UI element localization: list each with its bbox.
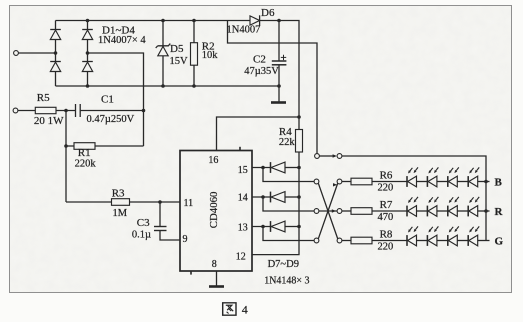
node: pin wire junction row 3 (261, 225, 265, 229)
wire (478, 210, 490, 212)
svg-text:C1: C1 (101, 94, 114, 106)
LED string G diode 4 (467, 235, 469, 246)
diode D4 (bridge bottom-right) (87, 40, 89, 62)
node: reset-net junction dots (297, 166, 301, 170)
wire (457, 210, 468, 212)
diode D9 (252, 226, 271, 228)
wire (437, 181, 448, 183)
wire: connector to R8 (342, 240, 351, 242)
node: AC input node right bridge midpoint (86, 51, 90, 55)
wire (457, 181, 468, 183)
capacitor C3 (159, 202, 161, 227)
svg-text:220: 220 (378, 182, 394, 193)
svg-text:13: 13 (238, 223, 248, 234)
capacitor C2 electrolytic (278, 21, 280, 62)
wire (478, 181, 490, 183)
LED string R diode 4 (467, 206, 469, 217)
svg-text:R5: R5 (37, 92, 50, 104)
svg-text:16: 16 (208, 155, 218, 166)
svg-text:20 1W: 20 1W (34, 115, 64, 127)
wire: pre-rectifier branch from top rail down to switch (228, 21, 318, 154)
zener diode D5 (162, 21, 164, 46)
node: pin wire junction row 1 (261, 166, 265, 170)
node: input terminal 1 (14, 51, 19, 56)
wire: top +rail from bridge to D6 anode (56, 20, 251, 22)
svg-text:D7~D9: D7~D9 (268, 259, 299, 270)
wire: bottom 0V rail (56, 85, 280, 87)
svg-text:14: 14 (238, 193, 248, 204)
svg-text:22k: 22k (279, 137, 296, 148)
wire: C1 right to bridge midpoint (vertical riser) (80, 110, 143, 112)
wire: connector to R6 (342, 181, 351, 183)
svg-text:G: G (495, 236, 504, 248)
svg-text:0.47µ250V: 0.47µ250V (87, 114, 135, 125)
svg-text:11: 11 (184, 198, 194, 209)
resistor R7 (351, 208, 372, 215)
wire: pin16 supply wire (217, 117, 300, 151)
wire: terminal2 to R5 (18, 110, 35, 112)
svg-text:B: B (495, 177, 503, 189)
switch S1 (315, 154, 320, 159)
diode D8 (252, 196, 271, 198)
wire: terminal1 to bridge (18, 52, 55, 54)
svg-text:D6: D6 (261, 7, 275, 19)
svg-text:9: 9 (183, 234, 188, 245)
diode D6 (250, 16, 260, 25)
resistor R5 (35, 107, 56, 113)
wire: crossover middle (319, 210, 337, 212)
node: AC input node left bridge midpoint (54, 51, 58, 55)
pin stub top edge (239, 147, 241, 151)
svg-text:R3: R3 (112, 187, 125, 199)
wire (478, 240, 490, 242)
LED string B diode 1 (406, 176, 408, 187)
wire: jog from pin row 2 to connector row (263, 197, 314, 211)
wire (437, 210, 448, 212)
svg-text:C2: C2 (253, 54, 266, 66)
wire: R8 to LED string (372, 240, 407, 242)
svg-text:R8: R8 (380, 229, 393, 241)
svg-text:10k: 10k (202, 50, 219, 61)
node: junction dots on top rail (86, 19, 90, 23)
node: R3/C3 junction (158, 200, 162, 204)
label + polarity of C2 (281, 56, 286, 58)
svg-text:0.1µ: 0.1µ (132, 229, 151, 240)
svg-text:15: 15 (238, 165, 248, 176)
LED string G diode 3 (447, 235, 449, 246)
svg-text:1N4007: 1N4007 (227, 25, 261, 36)
node: +V junction to pin16 (297, 115, 301, 119)
node: input terminal 2 (13, 108, 18, 113)
wire: top rail from D6 cathode to right corner (260, 21, 299, 118)
diode D3 (bridge top-right) (87, 21, 89, 30)
LED string G diode 2 (426, 235, 428, 246)
wire (417, 240, 428, 242)
LED string G diode 1 (406, 235, 408, 246)
svg-text:D5: D5 (170, 43, 184, 55)
wire: R6 to LED string (372, 181, 407, 183)
resistor R6 (351, 178, 372, 185)
svg-text:C3: C3 (137, 217, 150, 229)
wire (417, 181, 428, 183)
svg-text:220k: 220k (75, 159, 97, 170)
node: R5/C1/R1 junction (64, 109, 68, 113)
svg-text:220: 220 (378, 241, 394, 252)
LED string B diode 2 (426, 176, 428, 187)
LED string R diode 1 (406, 206, 408, 217)
diode D1 (bridge top-left) (55, 21, 57, 30)
LED string B diode 4 (467, 176, 469, 187)
resistor R1 (66, 145, 74, 147)
node: LED rail junctions (484, 180, 488, 184)
wire (417, 210, 428, 212)
wire: crossover bottom-left to top-right (318, 183, 338, 239)
svg-text:R6: R6 (380, 170, 393, 182)
resistor R2 (193, 21, 195, 43)
resistor R4 (298, 117, 300, 130)
capacitor C1 (75, 104, 77, 117)
node: C1 tee on riser (142, 109, 146, 113)
LED string R diode 2 (426, 206, 428, 217)
svg-text:R: R (495, 206, 504, 218)
node: R1 left junction (64, 144, 68, 148)
wire (457, 240, 468, 242)
LED string B diode 3 (447, 176, 449, 187)
wire: jog from pin row 1 to connector row (263, 168, 314, 182)
resistor R8 (351, 237, 372, 244)
LED string R diode 3 (447, 206, 449, 217)
node: connector right contacts (337, 179, 342, 184)
svg-text:1N4007× 4: 1N4007× 4 (98, 35, 146, 46)
svg-text:12: 12 (236, 252, 246, 263)
svg-text:1N4148× 3: 1N4148× 3 (264, 276, 309, 287)
svg-text:R1: R1 (78, 147, 91, 159)
wire: jog from pin row 3 to connector row (263, 227, 314, 241)
svg-text:470: 470 (378, 212, 394, 223)
wire: switch to LED supply rail (342, 156, 486, 241)
wire (437, 240, 448, 242)
wire: R5 to C1 node (56, 110, 76, 112)
wire: connector to R7 (342, 210, 351, 212)
node: junction dots on bottom rail (86, 84, 90, 88)
svg-text:1M: 1M (113, 208, 128, 219)
svg-text:15V: 15V (170, 56, 189, 67)
diode D2 (bridge bottom-left) (55, 40, 57, 62)
label figure caption: tu (CJK) glyph drawn (223, 303, 236, 315)
ground: C2 negative ground bar (271, 101, 286, 104)
node: connector left contacts (314, 179, 319, 184)
svg-text:4: 4 (242, 303, 248, 317)
wire: R1 branch down (65, 111, 67, 203)
ground: pin 8 ground (216, 271, 218, 286)
wire: crossover top-left to bottom-right (318, 183, 338, 239)
svg-text:R7: R7 (380, 199, 393, 211)
op-amp U1 CD4060 IC body (180, 151, 252, 272)
diode D7 (252, 167, 271, 169)
wire: R7 to LED string (372, 210, 407, 212)
svg-text:CD4060: CD4060 (208, 192, 220, 229)
resistor R3 (66, 201, 112, 203)
svg-text:8: 8 (212, 259, 217, 270)
pin stub bottom edge (190, 271, 192, 275)
node: pin wire junction row 2 (261, 195, 265, 199)
svg-text:47µ35V: 47µ35V (244, 66, 279, 77)
